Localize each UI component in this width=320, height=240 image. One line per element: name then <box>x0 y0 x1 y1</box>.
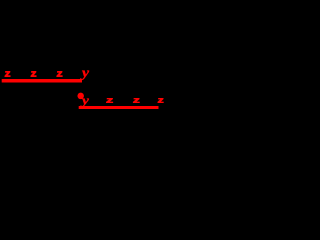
junction node dot <box>77 93 84 100</box>
impedance label z (slot 2, line 1) <box>31 71 37 77</box>
impedance label z (slot 1, line 2) <box>106 98 113 103</box>
transmission line 2 (wire) <box>79 106 159 109</box>
transmission line 1 (wire) <box>2 79 82 83</box>
svg-text:y: y <box>80 94 90 108</box>
impedance label z (slot 2, line 2) <box>133 98 140 103</box>
svg-text:y: y <box>80 66 90 80</box>
impedance label z (slot 3, line 2) <box>158 98 164 103</box>
impedance label z (slot 1, line 1) <box>5 71 11 77</box>
impedance label z (slot 3, line 1) <box>56 71 62 77</box>
